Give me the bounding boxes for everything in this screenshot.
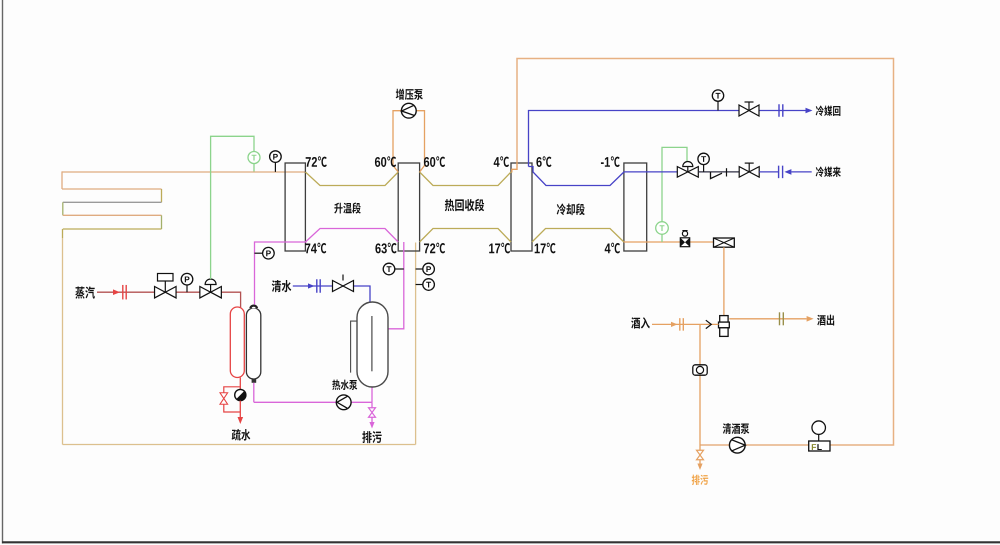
self-acting temp control valve V5 (coolant, dome) [677, 162, 698, 178]
label: 冷媒回 [816, 106, 841, 116]
wire: booster pump suction [393, 111, 401, 172]
pressure gauge P (product) [416, 263, 435, 275]
label: 17C bottom E3 left [489, 243, 510, 254]
wire: condensate down [239, 401, 241, 419]
label: 疏水 [232, 429, 251, 441]
label: 热回收段 [445, 199, 484, 211]
coolant supply arrow [784, 169, 791, 175]
wire: product inlet pipe [652, 323, 719, 325]
wire: holding tube left bend 1 [61, 171, 63, 189]
label: 升温段 [334, 202, 360, 213]
label: 60C right E2 [424, 156, 445, 167]
temperature gauge T (coolant return) [712, 90, 723, 111]
wire: booster pump discharge [416, 111, 424, 172]
product inlet arrow [671, 322, 678, 327]
label: 4C left E3 [494, 156, 509, 167]
wire: product bottom line left [63, 444, 416, 446]
label: 酒出 [817, 315, 834, 326]
valve V3 (clean water) [333, 275, 354, 292]
wire: holding tube row 1 (to plate E1) [62, 171, 305, 173]
label: -1C left E4 [601, 156, 620, 167]
control valve V1 (steam, with actuator box) [155, 274, 177, 298]
coolant return flange [779, 104, 783, 117]
temperature gauge T (product) [416, 279, 435, 291]
wire: holding tube row 2 [62, 188, 162, 190]
label: 热水泵 [332, 380, 357, 390]
hot water blowdown arrow [369, 422, 374, 429]
wire: product riser to plate E2 [415, 243, 417, 445]
steam flow arrow [113, 289, 120, 295]
wire: product outlet pipe [729, 318, 806, 320]
label: 6C right E3 [536, 156, 551, 167]
wire: tank outlet down [371, 387, 373, 402]
label: 增压泵 [396, 89, 423, 100]
pipe: bottom arc E2-E3 (olive) [420, 229, 511, 243]
label: 72C top E1 [306, 156, 327, 167]
pump P1 booster (增压泵) [401, 103, 416, 118]
steam flange [123, 285, 126, 300]
wire: product loop border (top/right/bottom-right) [517, 59, 894, 446]
pump P2 hot water (热水泵) [336, 395, 351, 410]
pump P3 sake (清酒泵) [729, 437, 745, 453]
label: 17C bottom E3 right [535, 243, 556, 254]
tank level gauge [351, 321, 357, 373]
flow meter FL [809, 421, 830, 451]
pressure gauge P (steam) [181, 273, 193, 292]
wire: clean water pipe [293, 286, 370, 302]
wire: hot water to plate E1 bottom [255, 242, 307, 305]
product blowdown valve (orange) [697, 445, 704, 464]
check symbol (chevron) [706, 320, 712, 328]
label: 60C left E2 [375, 156, 396, 167]
pipe: coolant top arc E3-E4 (blue) [529, 167, 624, 186]
wire: product left riser [62, 238, 64, 445]
pipe: top arc E1-E2 (olive) [305, 172, 398, 186]
wire: product line from E4 [624, 241, 714, 243]
wire: holding tube row 3 [63, 201, 162, 203]
back-pressure device (stack) [719, 316, 730, 337]
product outlet arrow [807, 316, 814, 322]
product inlet flange [680, 318, 684, 331]
wire: coolant return (blue top) [529, 111, 806, 167]
wire: holding tube right bend 1 [161, 189, 163, 202]
label: 蒸汽 [75, 286, 95, 298]
tank dip tube [371, 316, 373, 371]
label: 清酒泵 [723, 423, 750, 434]
wire: holding tube row 5 [63, 228, 162, 230]
frame bottom edge [2, 541, 1000, 543]
sight-glass box with X [714, 238, 735, 247]
clean water flange [317, 279, 320, 293]
swing check valve (coolant) [711, 168, 727, 178]
pressure gauge P (hot water) [255, 247, 275, 259]
heat exchanger plate section E4 [624, 163, 647, 251]
coolant return arrow [806, 108, 813, 114]
steam trap (half-filled circle) [235, 378, 246, 401]
product outlet flange [780, 312, 784, 325]
hot water tank vessel [357, 302, 388, 387]
condensate arrow [238, 417, 244, 424]
bypass globe valve [220, 393, 228, 405]
wire: holding tube row 4 [63, 214, 162, 216]
wire: coolant supply tail [791, 171, 811, 173]
label: 冷媒来 [816, 167, 841, 177]
product blowdown arrow [697, 464, 702, 471]
wire: coolant supply right [759, 171, 778, 173]
heat exchanger plate section E1 [285, 163, 305, 251]
capillary line (coolant valve sensor) [662, 147, 687, 222]
sampling valve (product line) [680, 231, 689, 247]
temperature sensor bulb green (product) [656, 222, 669, 242]
wire: holding tube outlet down (olive part) [62, 229, 64, 238]
label: 72C bottom E2 right [424, 243, 445, 254]
wire: heater bottom to pump suction [254, 383, 372, 403]
sight glass (circle in box) [693, 365, 707, 375]
heat exchanger plate section E2 [398, 163, 419, 251]
wire: product inlet tee down [699, 324, 701, 445]
heat exchanger plate section E3 [511, 163, 532, 251]
label: 酒入 [631, 317, 650, 328]
pressure gauge P (product line) [270, 151, 282, 172]
wire: coolant supply mid [698, 171, 739, 173]
wire: coolant supply (blue) [624, 171, 678, 173]
self-acting temp control valve V2 (steam, dome) [200, 279, 222, 298]
pipe: bottom arc E3-E4 (olive) [532, 229, 624, 243]
hot water blowdown valve [369, 402, 376, 422]
pipe: top arc E2-E3 (olive) [420, 172, 511, 186]
label: 清水 [272, 280, 292, 292]
label: 74C bottom E1 [305, 243, 326, 254]
wire: product drop to back-pressure device [723, 247, 725, 315]
wire: holding tube right bend 2 [161, 215, 163, 229]
gate valve V6 (coolant supply) [739, 163, 759, 177]
temperature sensor bulb (green) [248, 152, 260, 164]
label: 63C bottom E2 left [375, 243, 396, 254]
temperature gauge T (coolant supply) [698, 153, 709, 172]
temperature gauge T (hot water riser) [383, 263, 404, 275]
wire: hot water return riser [388, 242, 404, 329]
steam heater shell (red cylinder) [230, 307, 244, 378]
capillary line (steam valve sensor) [211, 136, 254, 279]
coolant supply flange [779, 166, 783, 179]
clean water arrow [308, 283, 315, 288]
steam heater inner vessel (black cylinder) [246, 306, 260, 383]
label: 排污 (hot water) [362, 431, 381, 443]
label: 冷却段 [557, 203, 585, 215]
wire: product drop into E3 port [512, 162, 517, 173]
gate valve V4 (coolant return) [739, 102, 759, 116]
label: 排污 (product, orange) [692, 475, 708, 485]
pipe: bottom arc E1-E2 (magenta) [305, 229, 398, 243]
bypass loop (trap) [224, 387, 241, 412]
wire: steam pipe [97, 292, 241, 311]
label: 4C bottom E4 [605, 243, 620, 254]
frame left edge [2, 0, 4, 544]
wire: holding tube left bend 2 [62, 202, 64, 215]
